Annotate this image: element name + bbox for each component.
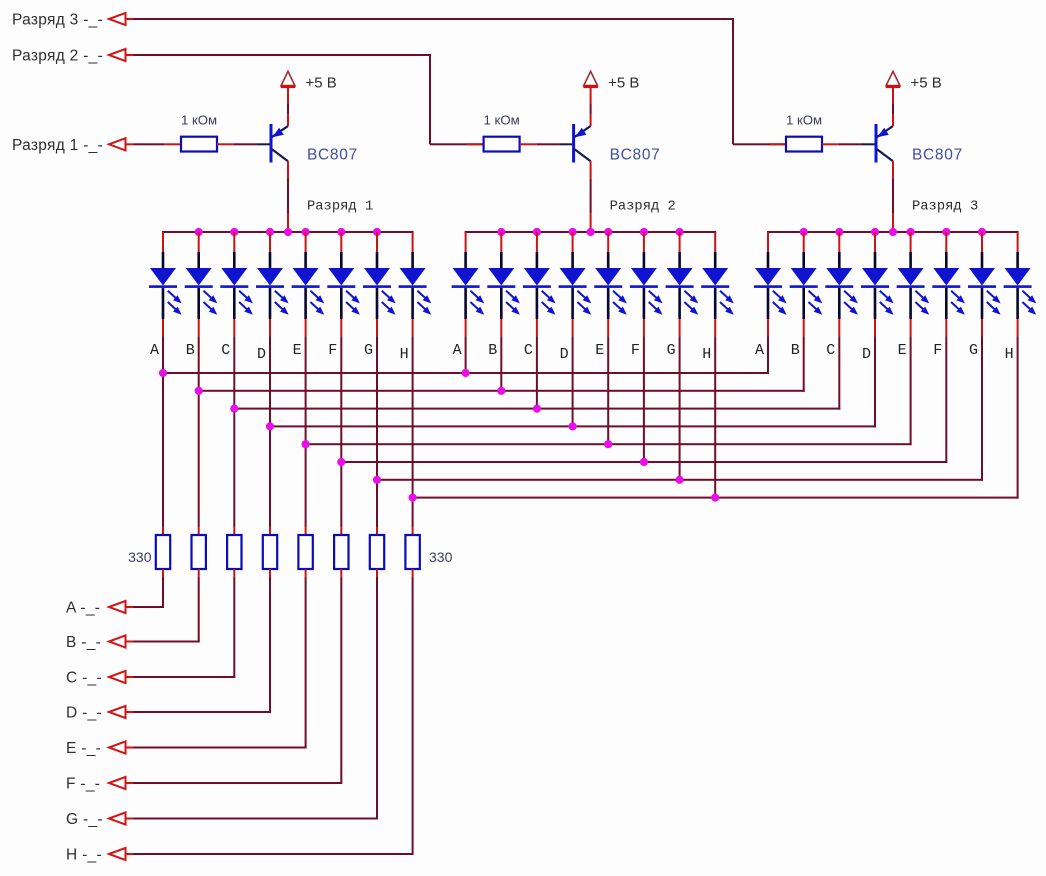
junction node net H digit 1 <box>409 494 417 502</box>
wire base of VT1 <box>217 143 271 145</box>
svg-text:G -_-: G -_- <box>66 811 103 828</box>
wire cathode LED B digit 2 down <box>500 337 502 392</box>
LED segment A digit 3 <box>754 232 787 319</box>
wire cathode pin LED B digit 1 <box>198 319 200 337</box>
svg-text:D: D <box>560 346 569 363</box>
resistor R10 330 segment G <box>370 527 384 578</box>
transistor VT1 BC807 (PNP) <box>270 124 289 163</box>
LED segment B digit 2 <box>487 232 520 319</box>
LED segment E digit 2 <box>594 232 627 319</box>
wire cathode LED H digit 3 down <box>1017 337 1019 499</box>
terminal D (output pin) <box>66 705 126 722</box>
LED segment B digit 3 <box>790 232 823 319</box>
LED segment D digit 3 <box>861 232 894 319</box>
junction node net G digit 1 <box>373 476 381 484</box>
terminal F (output pin) <box>66 776 126 793</box>
wire cathode LED B digit 1 down <box>198 337 200 527</box>
junction node net C digit 1 <box>230 405 238 413</box>
wire segment F resistor to terminal <box>126 578 343 785</box>
svg-text:H: H <box>1005 346 1014 363</box>
wire cathode pin LED E digit 2 <box>607 319 609 337</box>
resistor R8 330 segment E <box>298 527 312 578</box>
svg-text:F: F <box>328 342 337 359</box>
LED segment H digit 2 <box>701 232 734 319</box>
LED segment F digit 1 <box>327 232 360 319</box>
svg-text:H: H <box>702 346 711 363</box>
terminal Разряд 1 (input pin) <box>12 137 126 154</box>
junction node bus digit 2 seg E <box>604 228 612 236</box>
LED segment C digit 2 <box>523 232 556 319</box>
svg-text:Разряд 3: Разряд 3 <box>912 200 978 215</box>
wire cathode pin LED A digit 2 <box>465 319 467 337</box>
svg-text:F: F <box>933 342 942 359</box>
wire cathode LED A digit 1 down <box>162 337 164 527</box>
svg-text:H: H <box>400 346 409 363</box>
wire cathode pin LED G digit 3 <box>981 319 983 337</box>
resistor R6 330 segment C <box>227 527 241 578</box>
resistor R7 330 segment D <box>263 527 277 578</box>
terminal H (output pin) <box>66 847 126 864</box>
svg-text:B: B <box>488 342 497 359</box>
junction node bus digit 1 seg D <box>266 228 274 236</box>
junction node bus digit 2 seg D <box>569 228 577 236</box>
junction node bus digit 3 seg B <box>800 228 808 236</box>
wire emitter VT1 to +5V <box>287 87 289 126</box>
wire cathode pin LED B digit 2 <box>500 319 502 337</box>
svg-text:D: D <box>862 346 871 363</box>
wire cathode LED E digit 1 down <box>305 337 307 527</box>
resistor R2 1 кОм (base resistor digit 2) <box>484 137 520 152</box>
wire cathode LED A digit 2 down <box>465 337 467 375</box>
power +5V symbol digit 1 <box>281 71 296 88</box>
svg-text:E: E <box>898 342 907 359</box>
wire segment C resistor to terminal <box>126 578 236 679</box>
wire cathode LED A digit 3 down <box>767 337 769 375</box>
LED segment F digit 3 <box>932 232 965 319</box>
terminal Разряд 2 (input pin) <box>12 48 126 65</box>
junction node net F digit 1 <box>337 458 345 466</box>
wire cathode LED C digit 2 down <box>536 337 538 410</box>
wire emitter VT3 to +5V <box>892 87 894 126</box>
svg-text:A: A <box>150 342 159 359</box>
wire net F (connects three digits) <box>341 461 947 463</box>
wire base of VT2 <box>520 143 574 145</box>
wire cathode pin LED H digit 1 <box>412 319 414 337</box>
svg-text:G: G <box>969 342 978 359</box>
wire segment B resistor to terminal <box>126 578 200 643</box>
wire segment A resistor to terminal <box>126 578 165 609</box>
svg-text:E: E <box>595 342 604 359</box>
wire collector VT3 to LED bus <box>892 161 894 232</box>
junction node net B digit 2 <box>497 387 505 395</box>
svg-text:B: B <box>186 342 195 359</box>
junction node net D digit 2 <box>569 422 577 430</box>
wire from terminal Разряд 1 <box>126 143 183 145</box>
junction node net F digit 2 <box>640 458 648 466</box>
wire net B (connects three digits) <box>199 390 805 392</box>
wire anode bus digit 1 <box>162 231 414 233</box>
wire cathode LED C digit 1 down <box>233 337 235 527</box>
wire cathode pin LED G digit 1 <box>376 319 378 337</box>
svg-text:Разряд 3 -_-: Разряд 3 -_- <box>12 12 103 29</box>
wire cathode pin LED H digit 3 <box>1017 319 1019 337</box>
junction node bus digit 2 seg F <box>640 228 648 236</box>
wire cathode LED D digit 3 down <box>874 337 876 428</box>
junction node bus digit 3 collector <box>889 228 897 236</box>
wire cathode pin LED D digit 2 <box>572 319 574 337</box>
wire segment D resistor to terminal <box>126 578 272 714</box>
junction node bus digit 1 seg F <box>337 228 345 236</box>
wire cathode LED E digit 2 down <box>607 337 609 446</box>
svg-text:Разряд 1: Разряд 1 <box>307 200 373 215</box>
junction node bus digit 1 seg B <box>195 228 203 236</box>
svg-text:C: C <box>221 342 230 359</box>
wire net G (connects three digits) <box>377 479 983 481</box>
LED segment F digit 2 <box>630 232 663 319</box>
svg-text:A: A <box>755 342 764 359</box>
wire cathode pin LED H digit 2 <box>714 319 716 337</box>
svg-text:C: C <box>826 342 835 359</box>
svg-text:D -_-: D -_- <box>66 705 102 722</box>
wire cathode LED H digit 2 down <box>714 337 716 499</box>
wire cathode LED F digit 2 down <box>643 337 645 464</box>
LED segment B digit 1 <box>185 232 218 319</box>
svg-text:Разряд 2: Разряд 2 <box>610 200 676 215</box>
terminal Разряд 3 (input pin) <box>12 12 126 29</box>
wire collector VT1 to LED bus <box>287 161 289 232</box>
wire anode bus digit 2 <box>465 231 717 233</box>
wire cathode LED F digit 3 down <box>945 337 947 464</box>
wire net D (connects three digits) <box>270 425 876 427</box>
wire cathode pin LED C digit 3 <box>838 319 840 337</box>
junction node bus digit 1 collector <box>284 228 292 236</box>
LED segment G digit 2 <box>666 232 699 319</box>
junction node bus digit 1 seg E <box>302 228 310 236</box>
terminal A (output pin) <box>66 600 126 617</box>
LED segment E digit 3 <box>897 232 930 319</box>
wire from terminal Разряд 2 <box>126 54 484 145</box>
svg-text:G: G <box>667 342 676 359</box>
wire cathode pin LED C digit 2 <box>536 319 538 337</box>
resistor R9 330 segment F <box>334 527 348 578</box>
junction node net G digit 2 <box>676 476 684 484</box>
wire cathode pin LED F digit 1 <box>340 319 342 337</box>
LED segment G digit 3 <box>968 232 1001 319</box>
wire from terminal Разряд 3 <box>126 18 787 145</box>
LED segment A digit 1 <box>149 232 182 319</box>
svg-text:F: F <box>631 342 640 359</box>
wire cathode pin LED G digit 2 <box>679 319 681 337</box>
LED segment D digit 2 <box>559 232 592 319</box>
wire net E (connects three digits) <box>306 443 912 445</box>
svg-text:F -_-: F -_- <box>66 776 100 793</box>
wire cathode LED C digit 3 down <box>838 337 840 410</box>
wire cathode pin LED F digit 2 <box>643 319 645 337</box>
svg-text:1 кОм: 1 кОм <box>786 113 822 128</box>
wire cathode pin LED E digit 3 <box>910 319 912 337</box>
wire segment H resistor to terminal <box>126 578 414 856</box>
junction node bus digit 1 seg C <box>230 228 238 236</box>
svg-text:A: A <box>453 342 462 359</box>
resistor R5 330 segment B <box>192 527 206 578</box>
junction node bus digit 2 collector <box>587 228 595 236</box>
wire cathode LED B digit 3 down <box>803 337 805 392</box>
resistor R3 1 кОм (base resistor digit 3) <box>786 137 822 152</box>
wire cathode pin LED B digit 3 <box>803 319 805 337</box>
svg-text:Разряд 1 -_-: Разряд 1 -_- <box>12 137 103 154</box>
wire cathode LED F digit 1 down <box>340 337 342 527</box>
resistor R4 330 segment A <box>156 527 170 578</box>
junction node net D digit 1 <box>266 422 274 430</box>
terminal C (output pin) <box>66 670 126 687</box>
LED segment H digit 1 <box>399 232 432 319</box>
svg-text:D: D <box>257 346 266 363</box>
wire net H (connects three digits) <box>413 497 1019 499</box>
transistor VT3 BC807 (PNP) <box>875 124 894 163</box>
wire net C (connects three digits) <box>234 408 840 410</box>
svg-text:E: E <box>293 342 302 359</box>
svg-text:C: C <box>524 342 533 359</box>
svg-text:330: 330 <box>429 549 453 565</box>
LED segment A digit 2 <box>452 232 485 319</box>
svg-text:B: B <box>791 342 800 359</box>
junction node net E digit 1 <box>302 440 310 448</box>
wire cathode LED G digit 1 down <box>376 337 378 527</box>
junction node bus digit 2 seg B <box>497 228 505 236</box>
junction node bus digit 1 seg G <box>373 228 381 236</box>
wire net A (connects three digits) <box>163 372 769 374</box>
svg-text:+5 В: +5 В <box>608 75 639 92</box>
svg-text:1 кОм: 1 кОм <box>484 113 520 128</box>
svg-text:330: 330 <box>128 549 152 565</box>
transistor VT2 BC807 (PNP) <box>572 124 591 163</box>
junction node bus digit 3 seg E <box>907 228 915 236</box>
svg-text:C -_-: C -_- <box>66 670 102 687</box>
junction node net A digit 2 <box>462 369 470 377</box>
wire cathode LED H digit 1 down <box>412 337 414 527</box>
junction node bus digit 3 seg G <box>978 228 986 236</box>
svg-text:Разряд 2 -_-: Разряд 2 -_- <box>12 48 103 65</box>
svg-text:+5 В: +5 В <box>911 75 942 92</box>
wire cathode pin LED A digit 3 <box>767 319 769 337</box>
wire cathode LED D digit 1 down <box>269 337 271 527</box>
svg-text:E -_-: E -_- <box>66 740 101 757</box>
junction node bus digit 3 seg C <box>835 228 843 236</box>
terminal B (output pin) <box>66 634 126 651</box>
terminal E (output pin) <box>66 740 126 757</box>
wire cathode pin LED D digit 1 <box>269 319 271 337</box>
svg-text:BC807: BC807 <box>912 147 963 164</box>
junction node bus digit 2 seg C <box>533 228 541 236</box>
svg-text:B -_-: B -_- <box>66 634 101 651</box>
svg-text:G: G <box>364 342 373 359</box>
LED segment D digit 1 <box>256 232 289 319</box>
svg-text:H -_-: H -_- <box>66 847 102 864</box>
svg-text:1 кОм: 1 кОм <box>181 113 217 128</box>
svg-text:BC807: BC807 <box>610 147 661 164</box>
LED segment G digit 1 <box>363 232 396 319</box>
junction node net B digit 1 <box>195 387 203 395</box>
wire cathode pin LED C digit 1 <box>233 319 235 337</box>
junction node bus digit 2 seg G <box>676 228 684 236</box>
wire base of VT3 <box>822 143 876 145</box>
wire segment E resistor to terminal <box>126 578 307 749</box>
LED segment E digit 1 <box>292 232 325 319</box>
power +5V symbol digit 2 <box>583 71 598 88</box>
wire anode bus digit 3 <box>767 231 1019 233</box>
LED segment C digit 1 <box>220 232 253 319</box>
wire cathode pin LED E digit 1 <box>305 319 307 337</box>
wire cathode pin LED F digit 3 <box>945 319 947 337</box>
terminal G (output pin) <box>66 811 126 828</box>
LED segment H digit 3 <box>1004 232 1037 319</box>
wire cathode LED E digit 3 down <box>910 337 912 446</box>
svg-text:+5 В: +5 В <box>306 75 337 92</box>
junction node net A digit 1 <box>159 369 167 377</box>
wire cathode pin LED D digit 3 <box>874 319 876 337</box>
junction node net E digit 2 <box>604 440 612 448</box>
power +5V symbol digit 3 <box>886 71 901 88</box>
junction node bus digit 3 seg D <box>871 228 879 236</box>
wire emitter VT2 to +5V <box>590 87 592 126</box>
svg-text:A -_-: A -_- <box>66 600 100 617</box>
resistor R1 1 кОм (base resistor digit 1) <box>181 137 217 152</box>
LED segment C digit 3 <box>825 232 858 319</box>
junction node bus digit 3 seg F <box>942 228 950 236</box>
junction node net C digit 2 <box>533 405 541 413</box>
wire cathode LED G digit 3 down <box>981 337 983 481</box>
svg-text:BC807: BC807 <box>307 147 358 164</box>
wire cathode pin LED A digit 1 <box>162 319 164 337</box>
wire cathode LED G digit 2 down <box>679 337 681 481</box>
wire segment G resistor to terminal <box>126 578 379 820</box>
resistor R11 330 segment H <box>405 527 419 578</box>
junction node net H digit 2 <box>711 494 719 502</box>
wire cathode LED D digit 2 down <box>572 337 574 428</box>
wire collector VT2 to LED bus <box>590 161 592 232</box>
